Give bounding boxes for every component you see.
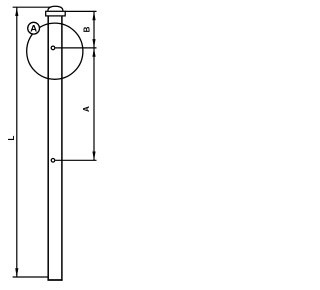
arrow B bottom [92,39,95,48]
cap dome [48,6,63,11]
dimension line B/A [93,11,95,160]
svg-text:A: A [30,23,37,34]
extension line: pole bottom (L dim) [13,276,49,278]
pole left edge [47,16,49,281]
cap collar [46,11,65,16]
pole bottom edge [48,279,63,281]
arrow L top [15,7,18,16]
balloon A circle [28,22,40,34]
dimension line L [16,7,18,277]
arrow L bottom [15,268,18,277]
arrow A top [92,48,95,57]
svg-text:L: L [7,135,16,140]
extension line: hole 2 (A dim) [55,159,96,161]
hole 2 (lower) [51,159,55,163]
pole right edge [61,16,63,281]
extension line: hole 1 (B/A dim) [55,47,96,49]
hole 1 (upper) [51,46,55,50]
arrow A bottom [92,152,95,161]
extension line: cap top (L dim) [13,6,51,8]
svg-text:B: B [83,26,92,32]
detail circle (view A) [27,23,83,79]
svg-text:A: A [82,106,91,112]
arrow B top [92,11,95,20]
extension line: collar top (B dim) [65,10,96,12]
